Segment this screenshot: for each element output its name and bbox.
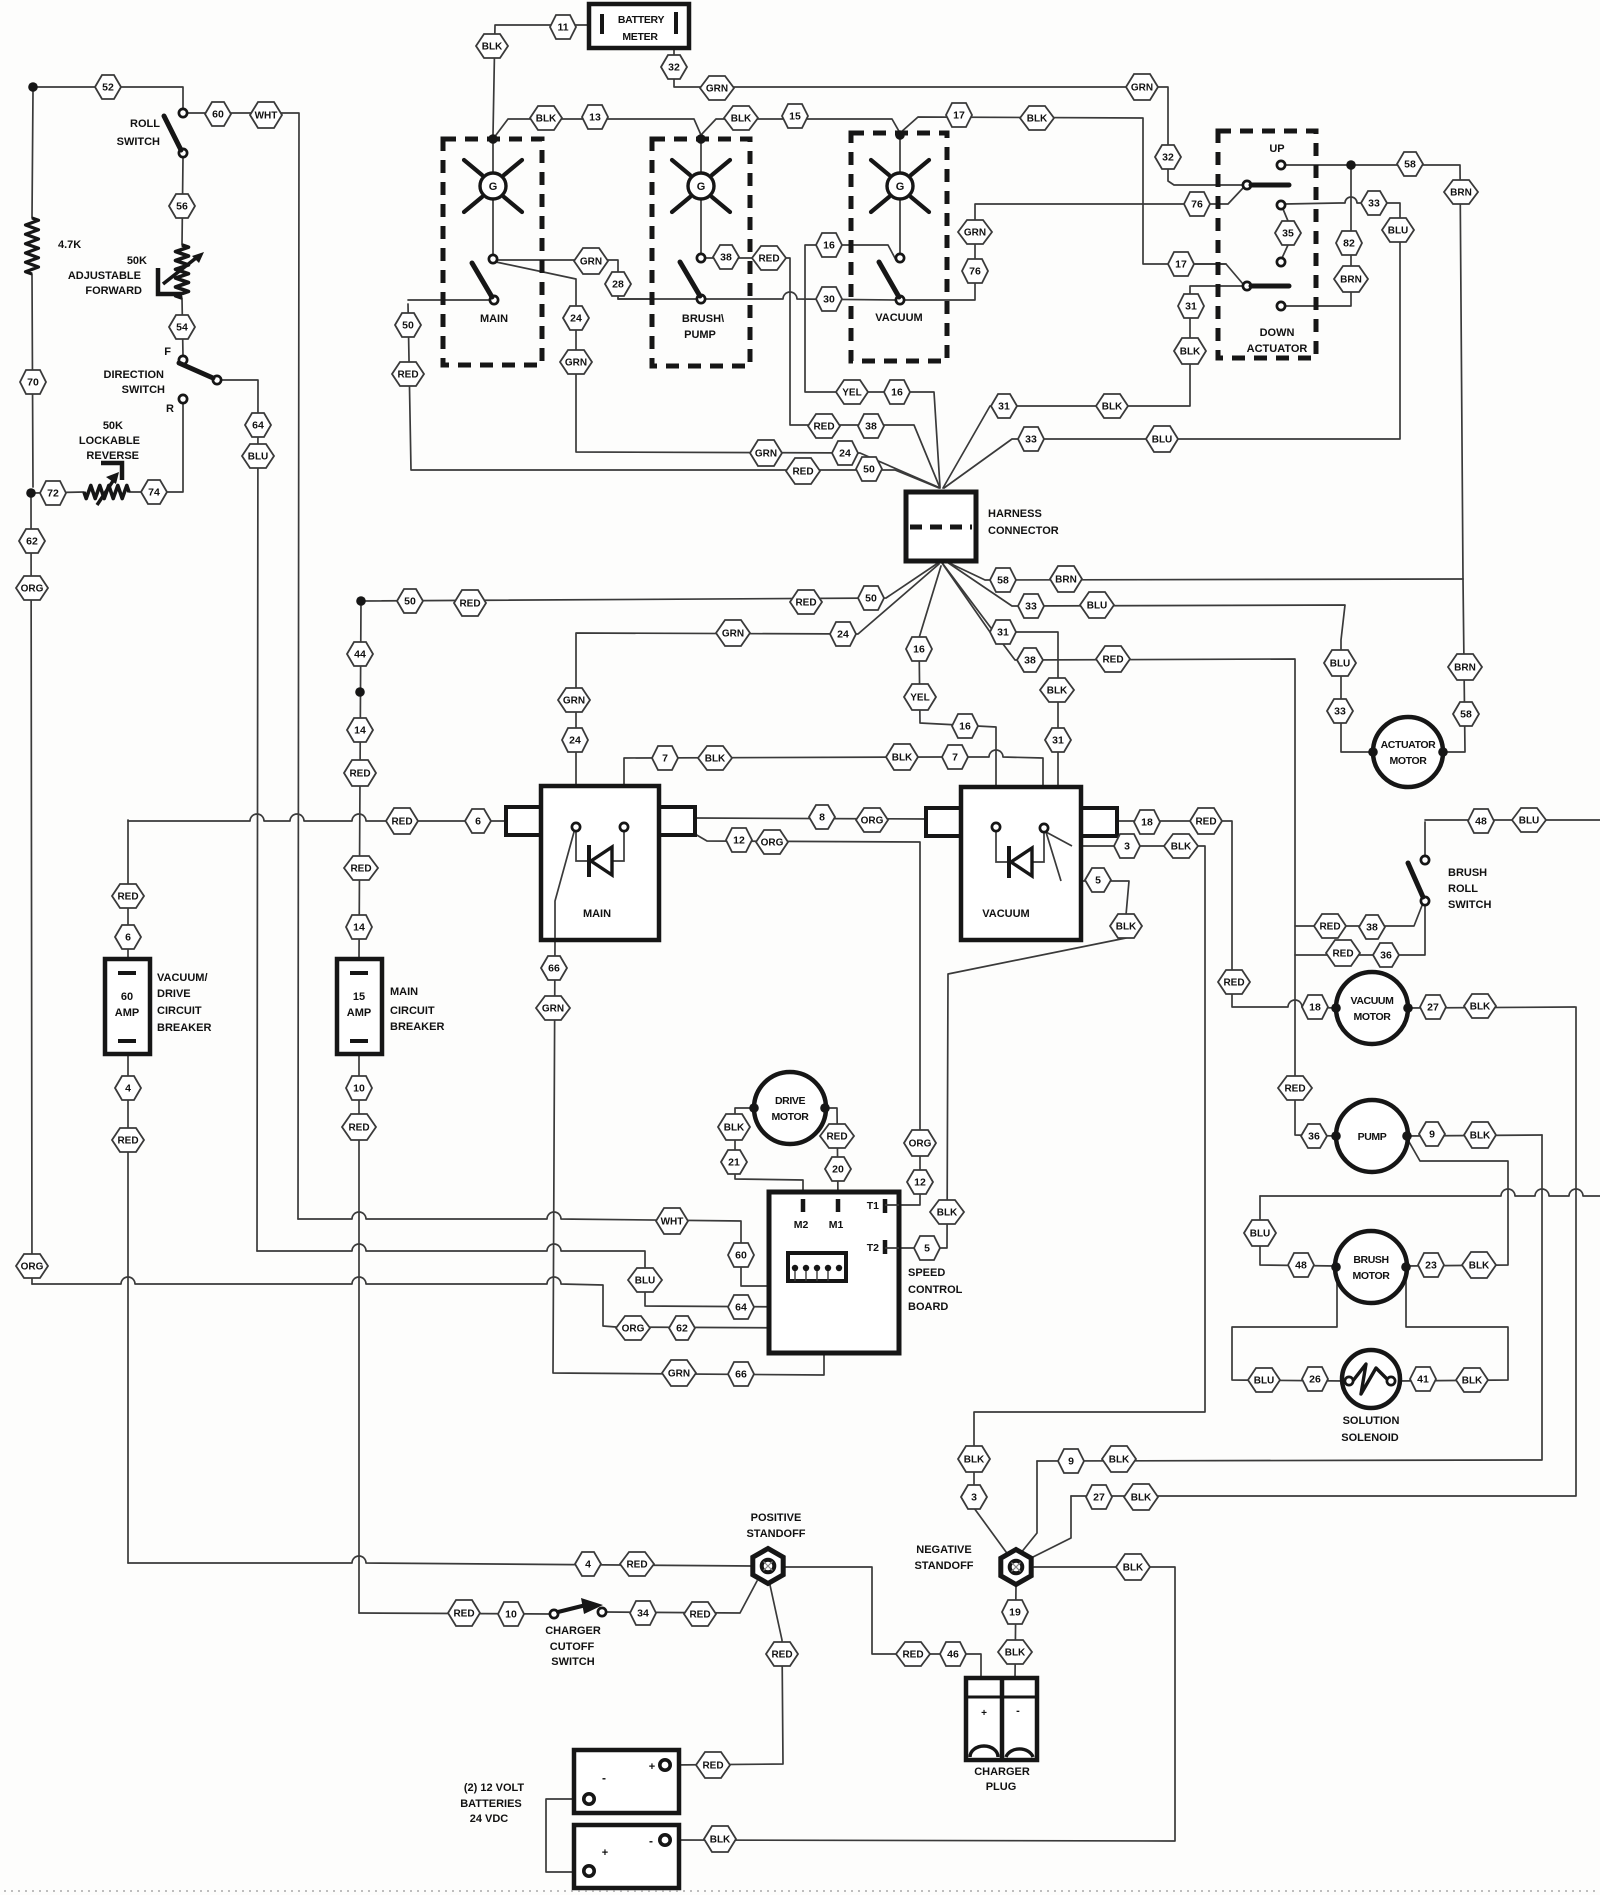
wire label 76 bbox=[962, 259, 988, 283]
svg-text:YEL: YEL bbox=[910, 693, 929, 704]
svg-text:VACUUM: VACUUM bbox=[982, 908, 1029, 920]
wire label ORG bbox=[904, 1130, 936, 1156]
svg-text:G: G bbox=[489, 181, 498, 193]
svg-text:SWITCH: SWITCH bbox=[551, 1656, 594, 1668]
wire label 13 bbox=[582, 105, 608, 129]
wire main coil stem bbox=[492, 139, 494, 255]
wire 33 contact hop segment bbox=[1285, 197, 1362, 204]
svg-text:BLU: BLU bbox=[1254, 1376, 1275, 1387]
svg-text:+: + bbox=[981, 1708, 987, 1719]
wire label RED bbox=[386, 808, 418, 834]
svg-text:ORG: ORG bbox=[622, 1324, 645, 1335]
svg-text:ORG: ORG bbox=[909, 1139, 932, 1150]
wire brush roll switch stem dashed bbox=[1424, 822, 1426, 856]
svg-text:50: 50 bbox=[404, 596, 416, 608]
main coil dashed box bbox=[443, 139, 542, 365]
wire label GRN bbox=[750, 440, 782, 466]
wire label GRN bbox=[958, 220, 992, 244]
wire label 16 bbox=[952, 714, 978, 738]
wire label RED bbox=[696, 1752, 730, 1778]
wire label BLK bbox=[718, 1114, 750, 1140]
wire 18 RED vacuum tab to vacuum motor bbox=[1115, 821, 1336, 1008]
svg-text:38: 38 bbox=[1024, 655, 1036, 667]
coil G vacuum bbox=[887, 173, 913, 199]
svg-text:RED: RED bbox=[626, 1560, 647, 1571]
svg-text:BLK: BLK bbox=[1470, 1002, 1491, 1013]
svg-text:BLU: BLU bbox=[1330, 659, 1351, 670]
svg-text:GRN: GRN bbox=[563, 696, 585, 707]
wire label 58 bbox=[990, 568, 1016, 592]
wire label 18 bbox=[1302, 995, 1328, 1019]
svg-text:16: 16 bbox=[913, 644, 925, 656]
wire label 38 bbox=[1359, 915, 1385, 939]
svg-text:21: 21 bbox=[728, 1157, 740, 1169]
wire fan to 16 YEL vertical vacuum left bbox=[919, 566, 996, 816]
wire 27 chain into negative standoff bbox=[1027, 1496, 1071, 1560]
wire label 41 bbox=[1410, 1367, 1436, 1391]
svg-text:LOCKABLE: LOCKABLE bbox=[79, 435, 140, 447]
svg-text:4: 4 bbox=[585, 1559, 591, 1571]
svg-text:RED: RED bbox=[771, 1650, 792, 1661]
speed board M2 M1 T1 T2 terminals bbox=[803, 1199, 885, 1254]
svg-text:8: 8 bbox=[819, 812, 825, 824]
wire solenoid bus y1196 bbox=[1260, 1189, 1600, 1196]
svg-text:76: 76 bbox=[969, 266, 981, 278]
svg-text:CIRCUIT: CIRCUIT bbox=[157, 1005, 202, 1017]
wire label BLK bbox=[530, 106, 562, 130]
svg-text:BLK: BLK bbox=[1470, 1131, 1491, 1142]
svg-text:BLK: BLK bbox=[1109, 1455, 1130, 1466]
svg-text:31: 31 bbox=[997, 627, 1009, 639]
wire label BLK bbox=[724, 106, 758, 130]
svg-text:RED: RED bbox=[391, 817, 412, 828]
svg-text:PLUG: PLUG bbox=[986, 1781, 1017, 1793]
svg-text:76: 76 bbox=[1191, 199, 1203, 211]
svg-text:-: - bbox=[1016, 1705, 1020, 1717]
wire battery meter left BLK vertical bbox=[493, 25, 589, 135]
svg-text:BLK: BLK bbox=[964, 1455, 985, 1466]
svg-text:BLK: BLK bbox=[1047, 686, 1068, 697]
svg-text:RED: RED bbox=[826, 1132, 847, 1143]
wire label 48 bbox=[1468, 809, 1494, 833]
svg-text:27: 27 bbox=[1427, 1002, 1439, 1014]
svg-text:DIRECTION: DIRECTION bbox=[104, 369, 165, 381]
charger plug bbox=[966, 1678, 1037, 1760]
wire label RED bbox=[112, 1128, 144, 1152]
svg-text:GRN: GRN bbox=[542, 1004, 564, 1015]
svg-text:BLK: BLK bbox=[731, 114, 752, 125]
svg-text:GRN: GRN bbox=[668, 1369, 690, 1380]
direction switch bbox=[179, 356, 187, 364]
svg-text:RED: RED bbox=[117, 1136, 138, 1147]
svg-text:46: 46 bbox=[947, 1649, 959, 1661]
vacuum motor bbox=[1336, 972, 1408, 1044]
svg-text:SWITCH: SWITCH bbox=[117, 136, 160, 148]
svg-text:35: 35 bbox=[1282, 228, 1294, 240]
potentiometer 50K adjustable forward bbox=[176, 245, 189, 298]
svg-text:RED: RED bbox=[689, 1610, 710, 1621]
svg-text:24 VDC: 24 VDC bbox=[470, 1813, 509, 1825]
wire label ORG bbox=[16, 1254, 48, 1278]
wire label 50 bbox=[858, 586, 884, 610]
wire label BLU bbox=[1382, 218, 1414, 242]
wire label 27 bbox=[1420, 995, 1446, 1019]
svg-text:RED: RED bbox=[702, 1761, 723, 1772]
wire label 76 bbox=[1184, 192, 1210, 216]
brush pump coil dashed box bbox=[652, 139, 750, 366]
brush roll switch bbox=[1421, 856, 1429, 864]
wire label RED bbox=[790, 590, 822, 614]
svg-text:PUMP: PUMP bbox=[1358, 1131, 1387, 1143]
wire main contactor diode link bbox=[576, 831, 624, 861]
svg-text:52: 52 bbox=[102, 82, 114, 94]
wire 38 RED to brush roll switch bbox=[1295, 903, 1423, 926]
wire label 6 bbox=[465, 809, 491, 833]
wire label 20 bbox=[825, 1157, 851, 1181]
svg-text:VACUUM: VACUUM bbox=[1351, 995, 1395, 1007]
wire label 24 bbox=[832, 441, 858, 465]
svg-text:BLU: BLU bbox=[635, 1276, 656, 1287]
coil G main bbox=[480, 173, 506, 199]
wire 19 BLK to charger plug bbox=[1015, 1585, 1016, 1678]
wire label 38 bbox=[713, 245, 739, 269]
wire label 32 bbox=[1155, 145, 1181, 169]
wire solenoid right loop to brush motor right bbox=[1395, 1271, 1508, 1381]
svg-text:GRN: GRN bbox=[580, 257, 602, 268]
wire label 6 bbox=[115, 925, 141, 949]
wire label 31 bbox=[1045, 728, 1071, 752]
wire label BLK bbox=[998, 1640, 1032, 1664]
wire label BLK bbox=[704, 1826, 736, 1852]
wire label RED bbox=[392, 362, 424, 386]
svg-text:G: G bbox=[896, 181, 905, 193]
wire 5 BLK vacuum to T2 bbox=[891, 832, 1129, 1248]
svg-text:BLK: BLK bbox=[937, 1208, 958, 1219]
roll switch bbox=[179, 109, 187, 117]
node 14 split bbox=[355, 687, 365, 697]
svg-text:15: 15 bbox=[789, 111, 801, 123]
wire label BLU bbox=[1512, 808, 1546, 832]
wire 9 chain into negative standoff bbox=[1020, 1461, 1037, 1554]
circuit breaker 60A vacuum/drive bbox=[105, 959, 150, 1054]
svg-text:STANDOFF: STANDOFF bbox=[914, 1560, 973, 1572]
wire label 21 bbox=[721, 1150, 747, 1174]
svg-text:RED: RED bbox=[350, 864, 371, 875]
wire label RED bbox=[1314, 914, 1346, 938]
wire label RED bbox=[1190, 808, 1222, 834]
svg-text:33: 33 bbox=[1025, 434, 1037, 446]
wire label BLU bbox=[1248, 1368, 1280, 1392]
wire label BRN bbox=[1050, 566, 1082, 592]
svg-text:BLK: BLK bbox=[724, 1123, 745, 1134]
svg-text:36: 36 bbox=[1380, 950, 1392, 962]
harness connector bbox=[906, 492, 976, 561]
wire label BRN bbox=[1444, 180, 1478, 204]
wire label 32 bbox=[661, 55, 687, 79]
svg-text:44: 44 bbox=[354, 649, 366, 661]
svg-text:F: F bbox=[164, 346, 171, 358]
svg-text:BLK: BLK bbox=[1180, 347, 1201, 358]
wire fan to 31 BLK right chain y406 bbox=[943, 286, 1243, 488]
svg-text:4.7K: 4.7K bbox=[58, 239, 81, 251]
wire label 5 bbox=[1085, 868, 1111, 892]
wire label 35 bbox=[1275, 221, 1301, 245]
wire label 8 bbox=[809, 805, 835, 829]
svg-text:64: 64 bbox=[252, 420, 264, 432]
wire label BLK bbox=[1456, 1368, 1488, 1392]
wire label BRN bbox=[1448, 654, 1482, 680]
svg-text:BRUSH: BRUSH bbox=[1448, 867, 1487, 879]
speed control board bbox=[769, 1192, 899, 1353]
svg-text:RED: RED bbox=[758, 254, 779, 265]
wire label RED bbox=[786, 458, 820, 484]
svg-text:ADJUSTABLE: ADJUSTABLE bbox=[68, 270, 141, 282]
wire label RED bbox=[620, 1552, 654, 1576]
wire label BLK bbox=[1464, 1122, 1496, 1148]
svg-text:RED: RED bbox=[1223, 978, 1244, 989]
svg-text:RED: RED bbox=[1332, 949, 1353, 960]
svg-text:27: 27 bbox=[1093, 1492, 1105, 1504]
wire label 74 bbox=[141, 480, 167, 504]
wire brush coil stem bbox=[700, 139, 702, 254]
node vacuum coil top bbox=[895, 130, 905, 140]
svg-text:YEL: YEL bbox=[842, 388, 861, 399]
svg-text:AMP: AMP bbox=[347, 1007, 371, 1019]
wire 35 link bbox=[1282, 209, 1288, 258]
svg-text:ORG: ORG bbox=[21, 1262, 44, 1273]
wire label WHT bbox=[250, 102, 282, 128]
wire label 33 bbox=[1327, 699, 1353, 723]
svg-text:MOTOR: MOTOR bbox=[1353, 1270, 1391, 1282]
contactor VACUUM bbox=[926, 808, 961, 836]
wire label 60 bbox=[205, 102, 231, 126]
wire label GRN bbox=[1126, 74, 1158, 100]
wire battery meter right 32 GRN run bbox=[674, 48, 1243, 185]
svg-text:32: 32 bbox=[668, 62, 680, 74]
negative standoff bbox=[1001, 1550, 1031, 1585]
wire fan to 50 RED y601 bbox=[359, 563, 938, 959]
svg-text:RED: RED bbox=[1195, 817, 1216, 828]
svg-text:6: 6 bbox=[475, 816, 481, 828]
wire label 62 bbox=[19, 529, 45, 553]
wire main switch to GRN 28 bus bbox=[497, 260, 652, 299]
svg-text:DRIVE: DRIVE bbox=[157, 988, 191, 1000]
wire BLU 48 to brush motor left bbox=[1260, 1196, 1336, 1266]
wire label 72 bbox=[40, 481, 66, 505]
wire label BLK bbox=[1102, 1446, 1136, 1472]
wire standoff right RED 46 to charger plug bbox=[785, 1567, 981, 1678]
svg-text:MAIN: MAIN bbox=[390, 986, 418, 998]
speed board connector bbox=[788, 1253, 846, 1281]
svg-text:T1: T1 bbox=[867, 1200, 879, 1212]
svg-text:ROLL: ROLL bbox=[130, 118, 160, 130]
svg-text:ROLL: ROLL bbox=[1448, 883, 1478, 895]
svg-text:M1: M1 bbox=[829, 1219, 844, 1231]
svg-text:19: 19 bbox=[1009, 1607, 1021, 1619]
svg-text:34: 34 bbox=[637, 1608, 649, 1620]
svg-text:BLK: BLK bbox=[1123, 1563, 1144, 1574]
wire label 23 bbox=[1418, 1253, 1444, 1277]
wire brush motor left loop to solenoid bbox=[1232, 1271, 1345, 1381]
wire 17 into lower blade bbox=[1195, 263, 1226, 265]
svg-text:18: 18 bbox=[1309, 1002, 1321, 1014]
svg-text:RED: RED bbox=[795, 598, 816, 609]
svg-text:BLK: BLK bbox=[1171, 842, 1192, 853]
svg-text:66: 66 bbox=[735, 1369, 747, 1381]
wire label 19 bbox=[1002, 1600, 1028, 1624]
wire roll switch to 56 pot 54 F bbox=[182, 158, 183, 356]
wire label YEL bbox=[836, 380, 868, 404]
svg-text:12: 12 bbox=[733, 835, 745, 847]
svg-text:R: R bbox=[166, 403, 174, 415]
svg-text:GRN: GRN bbox=[755, 449, 777, 460]
wire label GRN bbox=[560, 350, 592, 374]
wire label 7 bbox=[942, 745, 968, 769]
svg-text:58: 58 bbox=[1404, 159, 1416, 171]
wire label BLK bbox=[1164, 834, 1198, 858]
contactor MAIN bbox=[506, 807, 541, 835]
svg-text:4: 4 bbox=[125, 1083, 131, 1095]
wire label 50 bbox=[395, 313, 421, 337]
svg-text:BREAKER: BREAKER bbox=[390, 1021, 444, 1033]
battery 1 bbox=[574, 1750, 679, 1813]
wire label 33 bbox=[1018, 427, 1044, 451]
svg-text:17: 17 bbox=[1175, 259, 1187, 271]
wire BLU 64 chain into board bbox=[257, 1244, 802, 1307]
svg-text:14: 14 bbox=[353, 922, 365, 934]
svg-text:-: - bbox=[602, 1771, 606, 1785]
wire label RED bbox=[448, 1600, 480, 1626]
wire label RED bbox=[896, 1642, 930, 1666]
svg-text:10: 10 bbox=[353, 1083, 365, 1095]
node battery-meter BLK bbox=[488, 134, 498, 144]
svg-text:GRN: GRN bbox=[722, 629, 744, 640]
svg-text:74: 74 bbox=[148, 487, 160, 499]
main coil switch bbox=[489, 255, 497, 263]
svg-text:18: 18 bbox=[1141, 817, 1153, 829]
svg-text:(2) 12 VOLT: (2) 12 VOLT bbox=[464, 1782, 525, 1794]
resistor 4.7K bbox=[26, 218, 39, 274]
svg-text:33: 33 bbox=[1368, 198, 1380, 210]
wire label 30 bbox=[816, 287, 842, 311]
svg-text:CUTOFF: CUTOFF bbox=[550, 1641, 595, 1653]
svg-text:6: 6 bbox=[125, 932, 131, 944]
svg-text:SOLUTION: SOLUTION bbox=[1343, 1415, 1400, 1427]
wire label RED bbox=[1218, 970, 1250, 994]
svg-text:9: 9 bbox=[1068, 1456, 1074, 1468]
wire label 24 bbox=[562, 728, 588, 752]
svg-text:SOLENOID: SOLENOID bbox=[1341, 1432, 1399, 1444]
wire label 4 bbox=[115, 1076, 141, 1100]
wire main switch diagonal upper 24 GRN vertical to fan bbox=[496, 262, 938, 487]
wire label 9 bbox=[1419, 1122, 1445, 1146]
svg-text:24: 24 bbox=[839, 448, 851, 460]
svg-text:48: 48 bbox=[1295, 1260, 1307, 1272]
svg-text:16: 16 bbox=[823, 240, 835, 252]
svg-text:RED: RED bbox=[1102, 655, 1123, 666]
down actuator down blade bbox=[1243, 282, 1251, 290]
wire BLK 13 15 17 top run bbox=[493, 117, 1243, 284]
wire label 33 bbox=[1018, 594, 1044, 618]
wire label WHT bbox=[656, 1208, 688, 1234]
svg-text:GRN: GRN bbox=[565, 358, 587, 369]
wire label 16 bbox=[906, 637, 932, 661]
wire ORG 62 chain into board bbox=[32, 1277, 814, 1328]
wire RED 6 chain to MAIN tab bbox=[128, 814, 506, 821]
svg-text:31: 31 bbox=[1052, 735, 1064, 747]
circuit breaker 15A main bbox=[337, 959, 382, 1054]
wire label 64 bbox=[245, 413, 271, 437]
svg-text:60: 60 bbox=[212, 109, 224, 121]
svg-text:64: 64 bbox=[735, 1302, 747, 1314]
wire label BLK bbox=[1464, 994, 1496, 1018]
brush motor bbox=[1335, 1231, 1407, 1303]
svg-text:50: 50 bbox=[865, 593, 877, 605]
wire label 17 bbox=[946, 103, 972, 127]
wire node 52 to roll switch bbox=[33, 87, 183, 109]
wire 10 RED 34 charger cutoff chain bbox=[359, 1581, 757, 1614]
down actuator up blade bbox=[1243, 181, 1251, 189]
wire fan to 38 RED y659 column 1295 bbox=[943, 564, 1336, 1136]
wire 7 BLK main to vacuum bbox=[624, 750, 1043, 824]
node top-left bbox=[28, 82, 38, 92]
wire label BLU bbox=[1080, 592, 1114, 618]
svg-text:RED: RED bbox=[902, 1650, 923, 1661]
wire label BLK bbox=[1096, 394, 1128, 418]
svg-text:3: 3 bbox=[971, 1492, 977, 1504]
wire drive motor left to M2 bbox=[735, 1108, 803, 1199]
svg-text:31: 31 bbox=[998, 401, 1010, 413]
wire label 64 bbox=[728, 1295, 754, 1319]
battery meter bbox=[589, 4, 689, 48]
pump motor bbox=[1336, 1100, 1408, 1172]
svg-text:BLK: BLK bbox=[1102, 402, 1123, 413]
svg-text:7: 7 bbox=[952, 752, 958, 764]
svg-text:70: 70 bbox=[27, 377, 39, 389]
battery 2 bbox=[574, 1825, 679, 1888]
wire label 50 bbox=[397, 589, 423, 613]
svg-text:MAIN: MAIN bbox=[583, 908, 611, 920]
svg-text:BLU: BLU bbox=[248, 452, 269, 463]
wire label BLK bbox=[1124, 1484, 1158, 1510]
wire label 36 bbox=[1301, 1124, 1327, 1148]
wire label ORG bbox=[616, 1316, 650, 1340]
svg-text:7: 7 bbox=[662, 753, 668, 765]
wire label 50 bbox=[856, 457, 882, 481]
svg-text:BRN: BRN bbox=[1450, 188, 1472, 199]
wire label 36 bbox=[1373, 943, 1399, 967]
wire label 52 bbox=[95, 75, 121, 99]
svg-text:10: 10 bbox=[505, 1609, 517, 1621]
wire label BLK bbox=[1040, 678, 1074, 702]
wire label BLU bbox=[1146, 426, 1178, 452]
wire pump diagonal to brush motor right bbox=[1406, 1140, 1508, 1266]
svg-text:24: 24 bbox=[569, 735, 581, 747]
wire label RED bbox=[752, 246, 786, 270]
svg-text:VACUUM: VACUUM bbox=[875, 312, 922, 324]
wire pump right 9 BLK bbox=[1407, 1135, 1542, 1136]
svg-text:BRUSH\: BRUSH\ bbox=[682, 313, 724, 325]
wire label GRN bbox=[536, 996, 570, 1020]
wire label 33 bbox=[1361, 191, 1387, 215]
wire label BRN bbox=[1334, 266, 1368, 292]
wire label 14 bbox=[347, 718, 373, 742]
positive standoff bbox=[753, 1549, 783, 1584]
svg-text:50: 50 bbox=[402, 320, 414, 332]
actuator motor bbox=[1373, 717, 1443, 787]
wire label RED bbox=[454, 590, 486, 616]
svg-text:50K: 50K bbox=[103, 420, 123, 432]
